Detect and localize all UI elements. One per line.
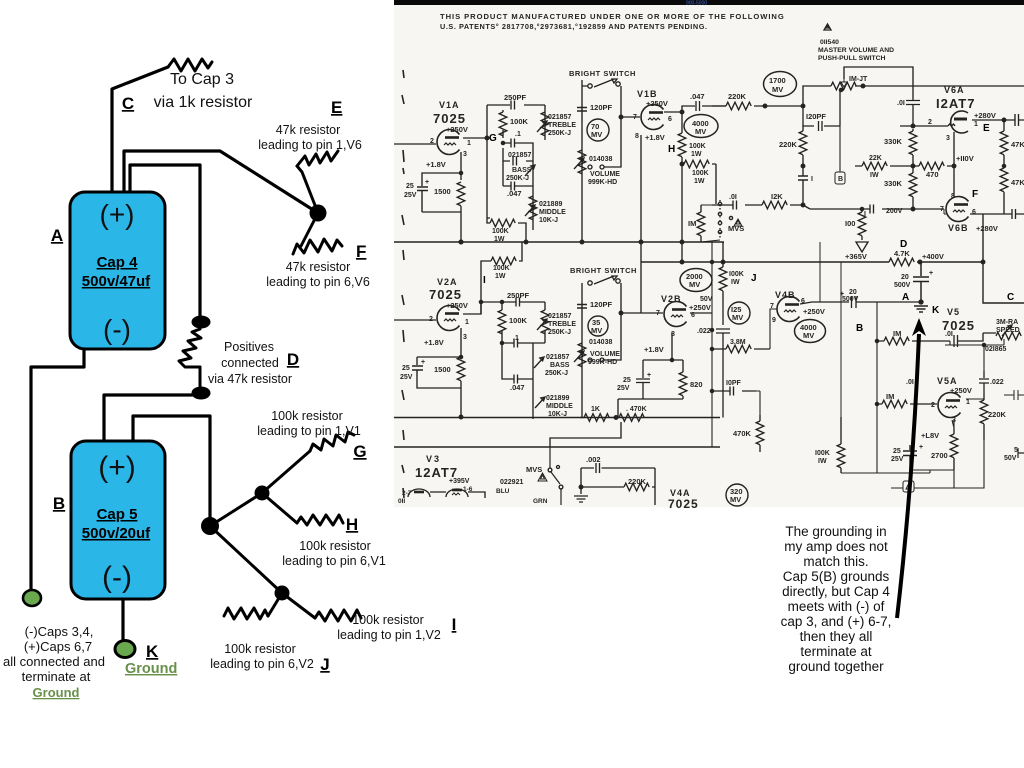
resistor G 100k zigzag [310,432,354,451]
svg-text:V1B: V1B [637,89,658,99]
ground K scan [914,306,928,312]
svg-text:+1.8V: +1.8V [424,338,444,347]
svg-text:B: B [838,176,843,183]
svg-text:500v/20uf: 500v/20uf [82,525,151,542]
resistor 1500 ch1 [457,182,465,206]
svg-text:H: H [668,144,675,155]
wire V1A plate to G [463,137,487,139]
wire V6A plate right [972,119,1004,121]
tube V1A [437,130,460,155]
svg-text:25V: 25V [617,385,630,392]
wire B node [839,126,841,172]
svg-text:.002: .002 [586,455,601,464]
label 5 50V [1004,447,1018,462]
svg-text:IM: IM [893,329,901,338]
svg-text:E: E [331,98,342,117]
svg-text:220K: 220K [628,477,647,486]
svg-text:V3: V3 [426,454,441,464]
svg-text:.0I: .0I [897,100,905,107]
capacitor 25/25V V5A [903,445,917,470]
svg-text:+250V: +250V [950,386,972,395]
bus channel1 bottom [394,241,724,243]
svg-text:+: + [647,372,651,379]
pin labels V2A [429,316,469,341]
svg-text:MV: MV [695,127,706,136]
resistor H 100k zigzag [297,515,343,525]
capacitor .022 V5A [979,371,989,395]
wire V6B plate right [970,209,1024,219]
capacitor .01 V5 [954,335,958,347]
svg-text:999K-HD: 999K-HD [588,359,617,366]
wire V5A block [877,302,950,473]
node dot 3 [275,586,290,601]
pin labels V6A [928,119,978,142]
junction dot 400V [918,260,922,264]
wire V1B pin8 down [640,135,642,313]
svg-text:To Cap 3: To Cap 3 [170,71,234,88]
svg-text:.022: .022 [990,379,1004,386]
svg-text:014038: 014038 [589,156,612,163]
svg-text:+: + [919,444,923,451]
junction dot 100k [680,162,684,166]
svg-text:500V: 500V [894,282,911,289]
label VOLUME ch2 [588,339,620,366]
wire bass branch ch1 [503,143,533,182]
switch wiper arrow [841,79,847,87]
resistor 470 [913,165,954,167]
svg-text:I00: I00 [845,219,855,228]
svg-text:.047: .047 [507,189,522,198]
svg-text:THIS PRODUCT MANUFACTURED U: THIS PRODUCT MANUFACTURED UNDER ONE OR M… [440,12,785,21]
svg-text:7025: 7025 [433,111,466,126]
svg-text:100K: 100K [509,316,528,325]
wire 250PF row ch2 [481,302,545,314]
pin labels V1A [430,138,471,158]
pot TREBLE ch1 [544,105,546,140]
svg-text:6: 6 [801,298,805,305]
capacitor .1 ch1 [503,142,526,144]
svg-text:120PF: 120PF [590,103,613,112]
svg-text:B: B [53,494,65,513]
capacitor 25/25V ch1 [417,180,428,212]
svg-text:then they all: then they all [800,629,873,644]
svg-text:1700: 1700 [769,76,786,85]
resistor 330K upper [909,131,917,155]
svg-text:F: F [972,189,978,200]
capacitor .047 V1B [696,101,700,111]
junction dots V2A cathode [459,355,462,358]
label 20 500V A [894,270,933,289]
wire V6B grid row [944,209,946,214]
svg-text:terminate at: terminate at [800,644,872,659]
svg-text:8: 8 [635,133,639,140]
top black bar [394,0,1024,5]
resistor 100K 1W J [722,242,724,302]
svg-text:Positives: Positives [224,340,274,354]
svg-text:250K-J: 250K-J [548,329,571,336]
svg-text:1W: 1W [691,151,702,158]
svg-text:25: 25 [623,377,631,384]
svg-text:IM: IM [688,219,696,228]
svg-text:(+)Caps 6,7: (+)Caps 6,7 [24,639,92,654]
column x803 master [802,126,804,205]
wire node2 to G resistor [262,451,310,493]
node dot D bottom [192,387,211,400]
pin labels V4B [770,298,805,324]
svg-text:The grounding in: The grounding in [785,524,886,539]
svg-text:02I865: 02I865 [985,346,1007,353]
resistor 47K right 2 [1000,168,1008,192]
svg-text:1W: 1W [694,178,705,185]
resistor 1k to Cap 3 [168,59,212,71]
svg-text:Ground: Ground [125,661,177,677]
svg-text:TREBLE: TREBLE [548,321,576,328]
svg-text:MV: MV [730,495,741,504]
capacitor .002 [581,463,655,505]
wire V3 plate row [430,492,485,498]
svg-text:+: + [929,270,933,277]
junction dots splitter [710,260,713,263]
svg-text:2: 2 [931,402,935,409]
resistor 12K [762,201,787,209]
resistor 47K right col upper tail [1003,120,1005,214]
pot TREBLE ch2 [533,302,545,343]
label MIDDLE ch1 [539,201,566,224]
svg-text:7: 7 [633,114,637,121]
svg-text:D: D [900,239,907,250]
svg-text:I2K: I2K [771,192,783,201]
svg-text:C: C [122,94,134,113]
svg-text:10K-J: 10K-J [539,217,558,224]
svg-text:(-): (-) [103,314,131,345]
wire D from cap4 top down right column [130,165,200,322]
svg-text:TREBLE: TREBLE [548,122,576,129]
svg-text:100K: 100K [689,143,706,150]
svg-text:100k resistor: 100k resistor [271,409,343,423]
svg-text:U.S. PATENTS° 2817708,°2973681: U.S. PATENTS° 2817708,°2973681,°192859 A… [440,22,708,31]
svg-text:25V: 25V [400,374,413,381]
svg-text:2: 2 [429,316,433,323]
capacitor .01 V6A [906,98,920,126]
svg-text:IW: IW [870,172,879,179]
svg-text:V1A: V1A [439,100,460,110]
wire V5A cathode net [910,420,954,473]
svg-text:6: 6 [972,209,976,216]
wire right edge caps [1004,390,1024,400]
svg-text:6: 6 [668,116,672,123]
pot 3M-RA SPEED [996,319,1020,334]
svg-text:PUSH-PULL SWITCH: PUSH-PULL SWITCH [818,55,886,62]
bus dots ch1 [459,240,463,244]
resistor 47K right 1 [1000,131,1008,155]
capacitor 120PF master [803,90,840,131]
resistor 220K V5A [983,395,985,440]
svg-text:MV: MV [732,313,743,322]
svg-text:BRIGHT SWITCH: BRIGHT SWITCH [570,266,637,275]
label 22K 1W [869,155,882,179]
capacitor .047 ch1 [503,161,533,192]
svg-text:connected: connected [221,356,279,370]
resistor 220K V3 [581,486,655,488]
svg-text:+250V: +250V [446,125,468,134]
svg-text:+250V: +250V [446,301,468,310]
label 25 25V V2B [617,372,651,392]
svg-text:I00K: I00K [729,271,744,278]
svg-text:1K: 1K [591,406,600,413]
svg-text:I20PF: I20PF [806,112,826,121]
svg-text:3: 3 [946,135,950,142]
wire E from cap4 top to junction dot [124,151,318,213]
label TREBLE ch2 [548,313,576,336]
capacitor Cap 5 [71,441,165,599]
wire 330K column [912,129,914,209]
svg-text:.047: .047 [510,383,525,392]
capacitor 5/50V [1018,448,1024,458]
label TREBLE ch1 [548,114,576,137]
svg-text:20: 20 [849,289,857,296]
ground V3 [580,487,582,494]
svg-text:3.8M: 3.8M [730,339,746,346]
svg-text:terminate at: terminate at [22,669,91,684]
svg-text:+250V: +250V [689,303,711,312]
svg-text:470K: 470K [733,429,752,438]
svg-text:V2A: V2A [437,277,458,287]
resistor 100K ch1 tone [502,110,504,138]
meter 4000MV ch1 [684,115,718,138]
svg-text:+1.8V: +1.8V [645,133,665,142]
resistor 820 V2B [682,360,684,399]
svg-text:cap 3, and (+) 6-7,: cap 3, and (+) 6-7, [781,614,892,629]
label .1 200V [862,208,903,218]
svg-text:MIDDLE: MIDDLE [546,403,573,410]
wire input to V2A pin2 [394,319,436,321]
resistor F 47k zigzag [293,239,342,254]
svg-text:K: K [932,305,940,316]
resistor 100K ch2 tone [501,302,503,343]
meter 70MV ch1 [587,119,609,141]
svg-text:100k resistor: 100k resistor [299,539,371,553]
resistor 1K bus [580,417,584,419]
svg-text:MV: MV [591,130,602,139]
svg-text:9: 9 [772,317,776,324]
svg-text:VOLUME: VOLUME [590,171,620,178]
resistor 1M ch1 [700,205,702,242]
svg-text:250K-J: 250K-J [548,130,571,137]
svg-text:+: + [425,179,429,186]
meter 125MV [728,302,750,324]
svg-text:I2AT7: I2AT7 [936,96,975,111]
wire tone stack column ch1 [487,105,545,218]
tube V3a lying [408,489,430,497]
svg-text:I: I [452,615,457,634]
svg-text:V6B: V6B [948,223,969,233]
bus +365V [641,214,1024,303]
wire node1 to node2 [210,493,262,526]
resistor 100K 1W V1B vert [681,112,683,262]
svg-text:2: 2 [430,138,434,145]
svg-text:V6A: V6A [944,85,965,95]
svg-text:all connected and: all connected and [3,654,105,669]
svg-text:(+): (+) [100,199,135,230]
svg-text:I: I [483,275,486,286]
wire V2B plate right [690,312,712,314]
svg-text:.0I: .0I [729,194,737,201]
resistor 220K vert master [799,131,807,155]
label 25 25V ch2 [400,359,425,381]
svg-text:B: B [856,323,863,334]
svg-text:via 47k resistor: via 47k resistor [208,372,292,386]
svg-text:MVS: MVS [526,465,542,474]
wire input to V1A pin2 [394,143,436,145]
label caps terminate [3,624,105,700]
svg-text:200V: 200V [886,208,903,215]
tube V5A [938,393,961,418]
resistor 330K lower [909,173,917,197]
svg-text:3: 3 [463,334,467,341]
svg-text:021857: 021857 [548,114,571,121]
svg-text:100K: 100K [492,228,509,235]
resistor 100K 1W ch1 low [487,218,526,242]
resistor 470K V4 [759,415,761,452]
label VOLUME ch1 [588,156,620,186]
svg-text:021889: 021889 [539,201,562,208]
wire .01 to V6A grid [900,124,955,126]
svg-text:22K: 22K [869,155,882,162]
svg-text:+400V: +400V [922,252,944,261]
svg-text:2: 2 [928,119,932,126]
svg-text:1: 1 [467,140,471,147]
resistor F 47k lead [301,213,318,246]
svg-text:(-)Caps 3,4,: (-)Caps 3,4, [25,624,94,639]
svg-text:meets with (-) of: meets with (-) of [788,599,885,614]
svg-text:+250V: +250V [803,307,825,316]
svg-text:+280V: +280V [976,224,998,233]
svg-text:250K-J: 250K-J [545,370,568,377]
svg-text:E: E [983,123,990,134]
capacitor bass in ch1 [513,157,517,166]
svg-text:K: K [146,642,159,661]
label 20 500V B [840,289,859,303]
tube V6B [946,197,969,222]
resistor E 47k lead [297,166,318,213]
label 25 25V ch1 [404,179,429,199]
resistor 100K 1W to MV [682,164,716,204]
svg-text:47K: 47K [1011,178,1024,187]
wire NFB down [550,422,621,447]
resistor 3.8M [712,348,770,350]
bus 2 (phase splitter top) [394,417,720,419]
svg-text:25: 25 [406,183,414,190]
meter 35MV ch2 [588,316,608,336]
svg-text:1W: 1W [495,273,506,280]
svg-text:014038: 014038 [589,339,612,346]
junction dot V2B cathode [670,358,673,361]
resistor I 100k zigzag [315,610,361,621]
capacitor .01 12K row [733,201,737,210]
svg-text:900-5000: 900-5000 [686,1,707,7]
svg-text:.047: .047 [690,92,705,101]
wire volume to V2B pin7 [621,312,663,314]
label 100K 1W ch1 low [492,228,509,243]
svg-text:220K: 220K [728,92,747,101]
ground triangle 100 [856,242,868,252]
svg-text:250PF: 250PF [504,93,527,102]
svg-text:MIDDLE: MIDDLE [539,209,566,216]
scan paper [394,0,1024,507]
resistor 1M V5 grid [877,340,950,342]
junction dot .1 ch2 [500,341,503,344]
svg-text:50V: 50V [700,296,713,303]
bus 3 [394,446,720,448]
svg-text:MASTER VOLUME AND: MASTER VOLUME AND [818,47,894,54]
svg-text:1: 1 [465,319,469,326]
svg-text:7: 7 [940,206,944,213]
pot VOLUME ch1 [581,122,583,242]
label 100K 1W ch2 [493,265,510,280]
svg-text:.0I: .0I [945,331,953,338]
capacitor .1 ch2 [502,342,533,344]
node dot 1 [201,517,219,535]
wire cap5 plus to node1 [133,416,210,518]
svg-text:J: J [751,273,757,284]
svg-text:Cap 5(B) grounds: Cap 5(B) grounds [783,569,890,584]
ground dot K [115,641,135,658]
wire splitter column [712,242,777,447]
meter 4000MV V4B [795,320,826,343]
svg-text:BASS: BASS [550,362,570,369]
svg-text:MV: MV [772,85,783,94]
svg-text:021857: 021857 [546,354,569,361]
wire cap4 bottom to ground dot [31,349,84,590]
resistor 4.7K rail [889,258,914,266]
svg-text:leading to pin 6,V6: leading to pin 6,V6 [266,275,370,289]
wire node2 to H resistor [262,493,297,523]
tube V1B [641,105,664,130]
svg-text:leading to pin 6,V2: leading to pin 6,V2 [210,657,314,671]
svg-text:.1: .1 [515,131,521,138]
wire V2B cathode rail [618,399,683,418]
label 100K 1W V1B [689,143,706,158]
svg-text:.022: .022 [697,328,711,335]
svg-text:IM-JT: IM-JT [849,76,868,83]
svg-text:IW: IW [731,279,740,286]
resistor 1M V5A [877,403,937,405]
svg-text:I: I [811,176,813,183]
svg-text:G: G [353,442,366,461]
boxed A symbol [903,481,914,492]
svg-text:. 470K: . 470K [626,406,647,413]
svg-text:47k resistor: 47k resistor [276,123,341,137]
wire V2A plate up to 100K [463,242,522,314]
svg-text:G: G [489,133,497,144]
svg-text:+280V: +280V [974,111,996,120]
tube V2B [664,302,687,327]
capacitor Cap 4 [70,192,165,349]
capacitor 25/25V ch2 [412,366,423,377]
svg-text:220K: 220K [988,410,1007,419]
svg-text:25V: 25V [404,192,417,199]
junction dot .1 ch1 [501,141,504,144]
label 100K 1W V4B [815,450,830,465]
svg-text:MV: MV [689,280,700,289]
pot 1M-JT master [803,86,1024,106]
pin labels V2B [656,310,695,338]
svg-text:100K: 100K [692,170,709,177]
svg-text:0II: 0II [398,498,405,505]
junction dots x803 [801,164,805,168]
tube V2A [437,306,460,331]
arrow to K ground [897,334,919,618]
